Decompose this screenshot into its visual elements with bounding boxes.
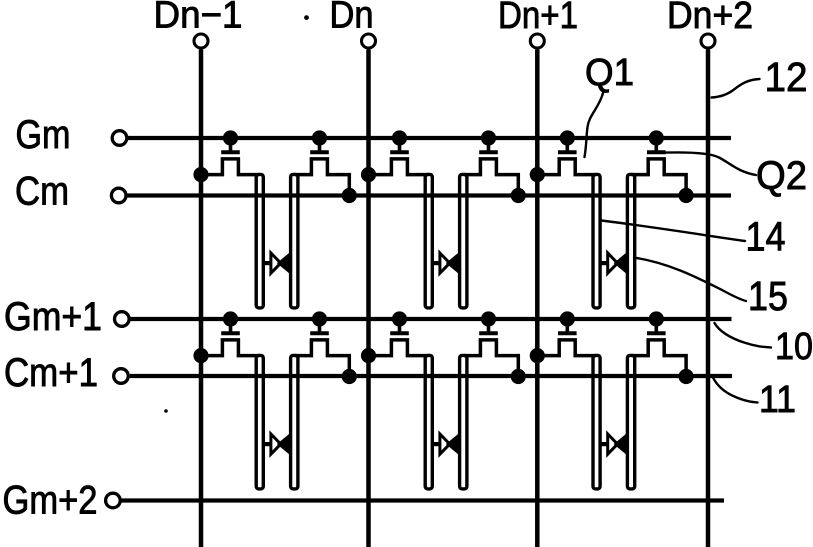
node label Dn bbox=[330, 0, 374, 37]
pixel electrode 14 (row m, col n-1) bbox=[256, 174, 263, 308]
transistor Q2 (row m, col n): gate junction dot on gate line bbox=[481, 130, 496, 145]
counter electrode 15 (row m, col n) bbox=[460, 174, 467, 308]
label Q2 bbox=[756, 154, 807, 198]
junction dot: Q1 source on data line (row m+1, col n) bbox=[361, 348, 376, 363]
terminal circle of line Cm+1 bbox=[114, 369, 129, 384]
transistor Q2 (row m+1, col n+1): channel (source from electrode 15, drain dropping to common line) bbox=[632, 340, 686, 375]
gate line Gm+1 (10): horizontal wire bbox=[131, 317, 732, 321]
liquid crystal element LC (row m, col n+1) bbox=[600, 253, 627, 273]
transistor Q1 (row m+1, col n-1): gate junction dot on gate line bbox=[223, 311, 238, 326]
pixel electrode 14 (row m+1, col n+1) bbox=[593, 355, 600, 489]
leader line from label Q1 to transistor Q1 bbox=[585, 93, 604, 157]
leader line from label Q2 to transistor Q2 bbox=[666, 152, 757, 175]
leader line from label 12 to data line Dn+2 bbox=[712, 79, 760, 98]
counter electrode 15 (row m+1, col n-1) bbox=[291, 355, 298, 489]
gate line Gm (10): horizontal wire bbox=[128, 136, 731, 140]
transistor Q2 (row m, col n): gate stub and gate electrode bar bbox=[479, 138, 498, 152]
svg-text:Gm: Gm bbox=[16, 113, 71, 157]
junction dot: Q2 drain on common line (row m, col n-1) bbox=[342, 188, 357, 203]
junction dot: Q2 drain on common line (row m+1, col n) bbox=[511, 369, 526, 384]
terminal circle of line Gm+2 bbox=[106, 493, 121, 508]
junction dot: Q1 source on data line (row m, col n-1) bbox=[193, 167, 208, 182]
transistor Q1 (row m, col n): gate stub and gate electrode bar bbox=[390, 138, 409, 152]
svg-text:11: 11 bbox=[759, 379, 796, 421]
pixel electrode 14 (row m, col n) bbox=[425, 174, 432, 308]
node label Dn+2 bbox=[667, 0, 753, 37]
svg-text:Cm+1: Cm+1 bbox=[4, 351, 98, 395]
transistor Q1 (row m, col n+1): gate junction dot on gate line bbox=[560, 130, 575, 145]
node label Cm bbox=[15, 170, 69, 214]
svg-text:15: 15 bbox=[748, 273, 788, 319]
svg-text:Cm: Cm bbox=[15, 170, 69, 214]
common line Cm (11): horizontal wire bbox=[128, 193, 732, 197]
node label Gm+1 bbox=[4, 295, 102, 339]
transistor Q1 (row m, col n-1): gate junction dot on gate line bbox=[223, 130, 238, 145]
label 10 bbox=[775, 326, 813, 368]
svg-text:Dn−1: Dn−1 bbox=[154, 0, 243, 37]
transistor Q2 (row m+1, col n-1): gate stub and gate electrode bar bbox=[310, 319, 329, 333]
transistor Q1 (row m+1, col n): channel (source from data line, drain to electrode 14) bbox=[367, 340, 428, 356]
transistor Q1 (row m+1, col n-1): gate stub and gate electrode bar bbox=[221, 319, 240, 333]
transistor Q2 (row m, col n-1): gate junction dot on gate line bbox=[312, 130, 327, 145]
label 11 bbox=[759, 379, 796, 421]
liquid crystal element LC (row m, col n) bbox=[432, 253, 459, 273]
junction dot: Q1 source on data line (row m+1, col n+1) bbox=[530, 348, 545, 363]
leader line from label 10 to gate line Gm+1 bbox=[715, 323, 772, 348]
liquid crystal element LC (row m+1, col n+1) bbox=[600, 434, 627, 454]
transistor Q2 (row m+1, col n): gate junction dot on gate line bbox=[481, 311, 496, 326]
pixel electrode 14 (row m+1, col n) bbox=[425, 355, 432, 489]
transistor Q2 (row m+1, col n-1): gate junction dot on gate line bbox=[312, 311, 327, 326]
label Q1 bbox=[585, 52, 634, 94]
leader line from label 11 to common line Cm+1 bbox=[713, 378, 758, 403]
svg-text:Dn: Dn bbox=[330, 0, 374, 37]
svg-text:Dn+1: Dn+1 bbox=[498, 0, 578, 37]
data line Dn-1 (12): vertical wire bbox=[199, 50, 204, 547]
transistor Q2 (row m, col n-1): channel (source from electrode 15, drain dropping to common line) bbox=[295, 159, 349, 194]
transistor Q2 (row m+1, col n): channel (source from electrode 15, drain dropping to common line) bbox=[464, 340, 518, 375]
data line Dn+2 (12): vertical wire bbox=[706, 50, 711, 547]
transistor Q1 (row m, col n+1): channel (source from data line, drain to electrode 14) bbox=[536, 159, 596, 175]
speck (scan artifact) bbox=[164, 409, 168, 413]
node label Dn+1 bbox=[498, 0, 578, 37]
transistor Q2 (row m, col n+1): channel (source from electrode 15, drain dropping to common line) bbox=[632, 159, 686, 194]
transistor Q2 (row m, col n+1): gate junction dot on gate line bbox=[649, 130, 664, 145]
svg-text:Q2: Q2 bbox=[756, 154, 807, 198]
transistor Q2 (row m+1, col n+1): gate junction dot on gate line bbox=[649, 311, 664, 326]
transistor Q1 (row m+1, col n): gate junction dot on gate line bbox=[392, 311, 407, 326]
transistor Q2 (row m+1, col n+1): gate stub and gate electrode bar bbox=[647, 319, 666, 333]
svg-text:Dn+2: Dn+2 bbox=[667, 0, 753, 37]
pixel electrode 14 (row m+1, col n-1) bbox=[256, 355, 263, 489]
terminal circle of line Gm+1 bbox=[115, 312, 130, 327]
counter electrode 15 (row m+1, col n+1) bbox=[627, 355, 634, 489]
node label Gm bbox=[16, 113, 71, 157]
svg-text:Gm+2: Gm+2 bbox=[3, 479, 98, 523]
transistor Q1 (row m+1, col n+1): channel (source from data line, drain to electrode 14) bbox=[536, 340, 596, 356]
counter electrode 15 (row m, col n+1) bbox=[627, 174, 634, 308]
junction dot: Q1 source on data line (row m+1, col n-1) bbox=[193, 348, 208, 363]
node label Gm+2 bbox=[3, 479, 98, 523]
transistor Q2 (row m, col n-1): gate stub and gate electrode bar bbox=[310, 138, 329, 152]
transistor Q1 (row m+1, col n+1): gate stub and gate electrode bar bbox=[558, 319, 577, 333]
transistor Q1 (row m, col n-1): gate stub and gate electrode bar bbox=[221, 138, 240, 152]
junction dot: Q2 drain on common line (row m+1, col n+1) bbox=[679, 369, 694, 384]
transistor Q1 (row m+1, col n-1): channel (source from data line, drain to electrode 14) bbox=[200, 340, 259, 356]
liquid crystal element LC (row m, col n-1) bbox=[263, 253, 290, 273]
liquid crystal element LC (row m+1, col n) bbox=[432, 434, 459, 454]
data line Dn (12): vertical wire bbox=[366, 50, 371, 547]
transistor Q1 (row m, col n): channel (source from data line, drain to electrode 14) bbox=[367, 159, 428, 175]
pixel electrode 14 (row m, col n+1) bbox=[593, 174, 600, 308]
junction dot: Q2 drain on common line (row m, col n) bbox=[511, 188, 526, 203]
data line Dn+1 (12): vertical wire bbox=[535, 50, 540, 547]
node label Dn-1 bbox=[154, 0, 243, 37]
terminal circle of line Gm bbox=[112, 131, 127, 146]
terminal circle of data line Dn+1 bbox=[530, 34, 544, 48]
transistor Q1 (row m+1, col n+1): gate junction dot on gate line bbox=[560, 311, 575, 326]
leader line from label 15 to counter electrode 15 bbox=[634, 258, 746, 302]
terminal circle of data line Dn+2 bbox=[701, 34, 715, 48]
terminal circle of data line Dn bbox=[362, 34, 376, 48]
transistor Q1 (row m+1, col n): gate stub and gate electrode bar bbox=[390, 319, 409, 333]
svg-text:Q1: Q1 bbox=[585, 52, 634, 94]
junction dot: Q2 drain on common line (row m, col n+1) bbox=[679, 188, 694, 203]
junction dot: Q1 source on data line (row m, col n) bbox=[361, 167, 376, 182]
transistor Q2 (row m+1, col n): gate stub and gate electrode bar bbox=[479, 319, 498, 333]
junction dot: Q2 drain on common line (row m+1, col n-1) bbox=[342, 369, 357, 384]
label 14 bbox=[746, 214, 786, 260]
leader line from label 14 to pixel electrode 14 bbox=[602, 221, 746, 242]
liquid crystal element LC (row m+1, col n-1) bbox=[263, 434, 290, 454]
label 12 bbox=[765, 54, 808, 100]
svg-text:12: 12 bbox=[765, 54, 808, 100]
label 15 bbox=[748, 273, 788, 319]
counter electrode 15 (row m+1, col n) bbox=[460, 355, 467, 489]
terminal circle of data line Dn-1 bbox=[194, 34, 208, 48]
transistor Q2 (row m, col n+1): gate stub and gate electrode bar bbox=[647, 138, 666, 152]
gate line Gm+2 (10): horizontal wire bbox=[122, 498, 725, 502]
transistor Q2 (row m+1, col n-1): channel (source from electrode 15, drain dropping to common line) bbox=[295, 340, 349, 375]
svg-text:10: 10 bbox=[775, 326, 813, 368]
common line Cm+1 (11): horizontal wire bbox=[130, 374, 732, 378]
transistor Q1 (row m, col n+1): gate stub and gate electrode bar bbox=[558, 138, 577, 152]
speck (scan artifact) bbox=[304, 15, 309, 20]
svg-text:Gm+1: Gm+1 bbox=[4, 295, 102, 339]
terminal circle of line Cm bbox=[111, 188, 126, 203]
counter electrode 15 (row m, col n-1) bbox=[291, 174, 298, 308]
transistor Q1 (row m, col n-1): channel (source from data line, drain to electrode 14) bbox=[200, 159, 259, 175]
junction dot: Q1 source on data line (row m, col n+1) bbox=[530, 167, 545, 182]
node label Cm+1 bbox=[4, 351, 98, 395]
svg-text:14: 14 bbox=[746, 214, 786, 260]
transistor Q1 (row m, col n): gate junction dot on gate line bbox=[392, 130, 407, 145]
transistor Q2 (row m, col n): channel (source from electrode 15, drain dropping to common line) bbox=[464, 159, 518, 194]
